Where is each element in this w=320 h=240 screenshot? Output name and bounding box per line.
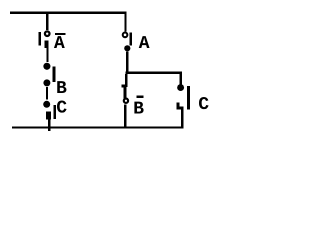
switch B top terminal dot [43,63,50,70]
label B-bar overline [137,96,144,98]
wire junction to B-bar [125,74,128,87]
label A-bar overline [55,33,66,35]
label C-right letter [199,97,209,109]
switch C-right lower terminal horizontal [176,107,183,110]
switch B blade [53,67,56,83]
loop top wire [126,72,183,74]
wire C-right to bottom rail [181,110,184,127]
label A letter [139,36,150,48]
switch A blade [130,32,132,45]
wire A to loop junction [126,51,128,72]
switch A terminal ring [123,33,128,38]
switch C-left blade [54,105,57,119]
switch A-bar lower terminal bar [45,40,49,48]
label B letter [57,81,66,93]
top rail [10,12,127,14]
switch B-bar terminal ring [124,99,128,103]
wire B-bar to bottom rail [124,104,126,126]
switch C-right blade [187,86,190,110]
switch B-bar nub [121,85,124,88]
wire loop top to C-right [180,74,182,86]
label B-bar letter [134,102,143,114]
switch B bottom terminal dot [43,79,50,86]
wire right branch from top rail [124,13,126,31]
switch A-bar terminal ring [45,31,50,36]
switch C-right top terminal dot [177,84,184,91]
label A-bar letter [54,36,65,48]
switch C-left lower terminal bar [46,112,51,120]
wire between A-bar and B [46,48,48,62]
bottom rail [12,126,184,128]
switch C-left top terminal dot [43,101,50,108]
switch A-bar blade [39,32,41,46]
switch C-right lower terminal vertical [176,102,179,109]
label C-left letter [57,100,67,112]
switch A bottom terminal dot [124,45,130,51]
wire left branch from top rail [46,13,48,30]
wire between B and C [46,87,48,100]
wire C-left to bottom rail (pokes below) [48,119,51,131]
switch B-bar stem [124,87,127,101]
